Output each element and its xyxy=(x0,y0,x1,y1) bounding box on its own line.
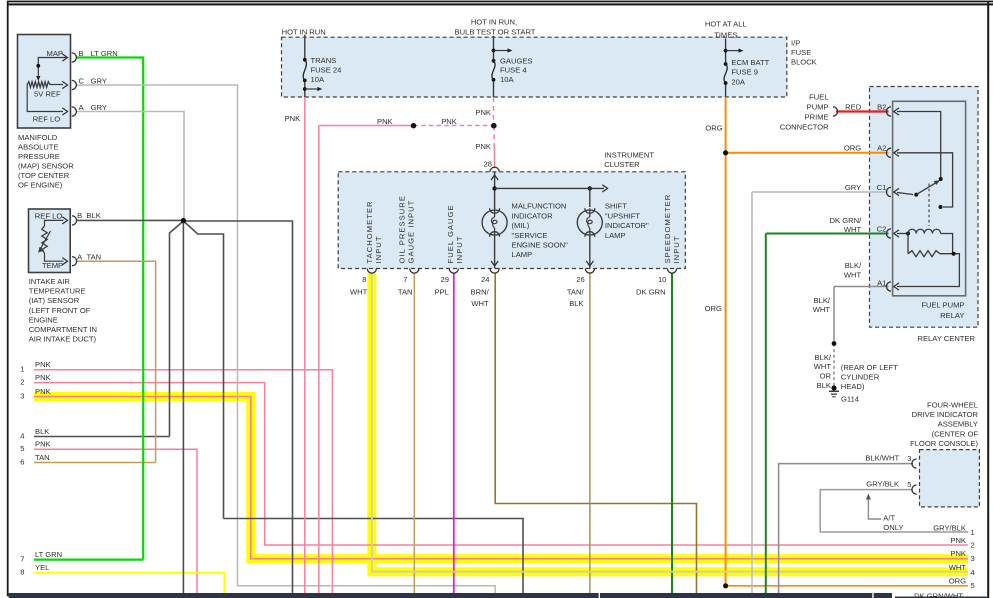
svg-text:GRY: GRY xyxy=(91,76,107,85)
svg-text:29: 29 xyxy=(441,275,449,284)
svg-text:BLK/: BLK/ xyxy=(814,296,831,305)
svg-text:20A: 20A xyxy=(731,78,745,87)
svg-text:BULB TEST OR START: BULB TEST OR START xyxy=(455,28,536,37)
svg-text:LAMP: LAMP xyxy=(512,250,533,259)
svg-text:INDICATOR": INDICATOR" xyxy=(605,221,649,230)
svg-text:REF LO: REF LO xyxy=(35,211,63,220)
svg-text:BLK: BLK xyxy=(87,211,101,220)
svg-text:PNK: PNK xyxy=(950,536,966,545)
svg-text:5: 5 xyxy=(907,480,911,489)
svg-text:COMPARTMENT IN: COMPARTMENT IN xyxy=(29,325,97,334)
svg-text:RELAY: RELAY xyxy=(940,311,964,320)
svg-text:28: 28 xyxy=(484,160,492,169)
svg-text:BLK/: BLK/ xyxy=(845,261,862,270)
svg-text:FLOOR CONSOLE): FLOOR CONSOLE) xyxy=(910,439,978,448)
svg-text:HOT AT ALL: HOT AT ALL xyxy=(705,20,747,29)
svg-text:(TOP CENTER: (TOP CENTER xyxy=(18,171,70,180)
svg-text:2: 2 xyxy=(20,377,24,386)
svg-text:LT GRN: LT GRN xyxy=(91,49,118,58)
svg-text:RELAY CENTER: RELAY CENTER xyxy=(917,334,975,343)
svg-text:BLK/WHT: BLK/WHT xyxy=(865,453,899,462)
svg-text:INDICATOR: INDICATOR xyxy=(512,211,554,220)
svg-text:RED: RED xyxy=(845,103,862,112)
svg-text:3: 3 xyxy=(971,554,975,563)
svg-text:3: 3 xyxy=(907,454,911,463)
svg-text:PNK: PNK xyxy=(377,117,393,126)
svg-text:G114: G114 xyxy=(841,394,859,403)
svg-text:PNK: PNK xyxy=(475,108,491,117)
svg-text:1: 1 xyxy=(971,528,975,537)
svg-text:4: 4 xyxy=(971,568,975,577)
svg-text:ENGINE: ENGINE xyxy=(29,315,58,324)
svg-text:BLOCK: BLOCK xyxy=(791,58,817,67)
svg-text:FUEL PUMP: FUEL PUMP xyxy=(921,301,964,310)
svg-text:SHIFT: SHIFT xyxy=(605,202,627,211)
svg-text:BLK/: BLK/ xyxy=(815,353,832,362)
svg-text:YEL: YEL xyxy=(35,563,49,572)
svg-text:TACHOMETER: TACHOMETER xyxy=(365,200,374,263)
svg-text:AIR INTAKE DUCT): AIR INTAKE DUCT) xyxy=(29,335,97,344)
svg-text:PRESSURE: PRESSURE xyxy=(18,152,60,161)
svg-text:WHT: WHT xyxy=(844,270,862,279)
svg-text:8: 8 xyxy=(362,275,366,284)
svg-text:8: 8 xyxy=(20,568,24,577)
svg-text:PRIME: PRIME xyxy=(805,112,829,121)
svg-text:10: 10 xyxy=(658,275,666,284)
svg-text:TAN: TAN xyxy=(35,453,50,462)
svg-text:HOT IN RUN: HOT IN RUN xyxy=(282,28,326,37)
svg-text:WHT: WHT xyxy=(350,288,368,297)
svg-text:FUSE: FUSE xyxy=(791,48,811,57)
svg-text:TAN: TAN xyxy=(87,252,102,261)
svg-text:C: C xyxy=(79,76,85,85)
svg-text:DRIVE INDICATOR: DRIVE INDICATOR xyxy=(912,410,979,419)
svg-text:TRANS: TRANS xyxy=(311,56,337,65)
svg-text:WHT: WHT xyxy=(813,305,831,314)
svg-text:PNK: PNK xyxy=(35,387,51,396)
svg-text:(MAP) SENSOR: (MAP) SENSOR xyxy=(18,162,74,171)
svg-text:TAN/: TAN/ xyxy=(567,288,585,297)
svg-text:HOT IN RUN,: HOT IN RUN, xyxy=(471,17,517,26)
svg-text:ORG: ORG xyxy=(949,577,966,586)
svg-text:BLK: BLK xyxy=(35,427,49,436)
svg-text:INPUT: INPUT xyxy=(672,235,681,263)
svg-text:ORG: ORG xyxy=(705,123,722,132)
svg-text:C2: C2 xyxy=(877,225,887,234)
svg-text:REF LO: REF LO xyxy=(33,115,61,124)
svg-text:5V REF: 5V REF xyxy=(34,90,61,99)
svg-text:ONLY: ONLY xyxy=(883,523,903,532)
svg-text:DK GRN/WHT: DK GRN/WHT xyxy=(914,592,963,598)
svg-text:INPUT: INPUT xyxy=(455,235,464,263)
svg-text:TEMP: TEMP xyxy=(42,261,63,270)
svg-text:A/T: A/T xyxy=(883,513,895,522)
svg-text:5: 5 xyxy=(20,444,24,453)
svg-text:ECM BATT: ECM BATT xyxy=(731,58,769,67)
svg-text:OIL PRESSURE: OIL PRESSURE xyxy=(398,195,407,263)
svg-text:PNK: PNK xyxy=(441,117,457,126)
svg-text:"UPSHIFT: "UPSHIFT xyxy=(605,211,641,220)
svg-text:PNK: PNK xyxy=(950,549,966,558)
svg-text:BLK: BLK xyxy=(569,299,583,308)
svg-text:MANIFOLD: MANIFOLD xyxy=(18,133,58,142)
svg-text:ABSOLUTE: ABSOLUTE xyxy=(18,143,59,152)
svg-text:3: 3 xyxy=(20,391,24,400)
svg-text:PUMP: PUMP xyxy=(807,102,829,111)
svg-text:GRY/BLK: GRY/BLK xyxy=(933,523,966,532)
svg-text:LAMP: LAMP xyxy=(605,231,626,240)
svg-text:A1: A1 xyxy=(877,279,886,288)
svg-text:FOUR-WHEEL: FOUR-WHEEL xyxy=(927,400,978,409)
svg-text:MAP: MAP xyxy=(47,49,63,58)
svg-text:WHT: WHT xyxy=(844,225,862,234)
svg-text:FUEL GAUGE: FUEL GAUGE xyxy=(446,204,455,263)
svg-text:B: B xyxy=(79,49,84,58)
svg-text:5: 5 xyxy=(971,581,975,590)
svg-text:7: 7 xyxy=(403,275,407,284)
svg-text:GRY: GRY xyxy=(91,103,107,112)
svg-text:TEMPERATURE: TEMPERATURE xyxy=(29,286,86,295)
svg-text:CLUSTER: CLUSTER xyxy=(604,160,640,169)
svg-text:(REAR OF LEFT: (REAR OF LEFT xyxy=(841,363,898,372)
svg-text:INPUT: INPUT xyxy=(374,235,383,263)
svg-text:CYLINDER: CYLINDER xyxy=(841,373,880,382)
svg-text:(CENTER OF: (CENTER OF xyxy=(932,429,979,438)
svg-text:C1: C1 xyxy=(877,183,887,192)
svg-text:(IAT) SENSOR: (IAT) SENSOR xyxy=(29,296,80,305)
svg-text:GAUGES: GAUGES xyxy=(500,56,533,65)
svg-text:I/P: I/P xyxy=(791,39,800,48)
svg-text:7: 7 xyxy=(20,554,24,563)
svg-text:(MIL): (MIL) xyxy=(512,221,530,230)
svg-text:FUSE 24: FUSE 24 xyxy=(311,66,342,75)
svg-text:A2: A2 xyxy=(877,144,886,153)
svg-text:ASSEMBLY: ASSEMBLY xyxy=(938,420,978,429)
svg-text:10A: 10A xyxy=(500,75,514,84)
svg-text:PPL: PPL xyxy=(434,288,448,297)
svg-text:ORG: ORG xyxy=(705,304,722,313)
svg-text:FUEL: FUEL xyxy=(809,92,828,101)
svg-text:INTAKE AIR: INTAKE AIR xyxy=(29,277,71,286)
svg-text:B2: B2 xyxy=(877,103,886,112)
svg-text:GAUGE INPUT: GAUGE INPUT xyxy=(407,200,416,264)
svg-text:PNK: PNK xyxy=(35,440,51,449)
svg-text:GRY: GRY xyxy=(845,183,861,192)
svg-text:WHT: WHT xyxy=(949,563,967,572)
svg-text:B: B xyxy=(77,211,82,220)
svg-text:2: 2 xyxy=(971,541,975,550)
svg-text:DK GRN: DK GRN xyxy=(636,288,666,297)
svg-text:TAN: TAN xyxy=(398,288,413,297)
svg-text:(LEFT FRONT OF: (LEFT FRONT OF xyxy=(29,306,91,315)
svg-text:4: 4 xyxy=(20,431,24,440)
svg-text:LT GRN: LT GRN xyxy=(35,550,62,559)
svg-text:WHT: WHT xyxy=(814,362,832,371)
svg-text:BLK: BLK xyxy=(817,381,831,390)
svg-text:26: 26 xyxy=(576,275,584,284)
svg-text:OF ENGINE): OF ENGINE) xyxy=(18,181,63,190)
svg-text:SPEEDOMETER: SPEEDOMETER xyxy=(663,194,672,264)
svg-text:PNK: PNK xyxy=(35,373,51,382)
svg-text:BRN/: BRN/ xyxy=(471,288,490,297)
svg-text:GRY/BLK: GRY/BLK xyxy=(866,479,899,488)
svg-text:PNK: PNK xyxy=(285,114,301,123)
svg-text:OR: OR xyxy=(820,372,832,381)
svg-text:PNK: PNK xyxy=(475,142,491,151)
svg-text:10A: 10A xyxy=(311,75,325,84)
svg-text:DK GRN/: DK GRN/ xyxy=(830,216,863,225)
svg-text:6: 6 xyxy=(20,457,24,466)
svg-text:ENGINE SOON": ENGINE SOON" xyxy=(512,241,569,250)
svg-text:WHT: WHT xyxy=(471,299,489,308)
svg-text:24: 24 xyxy=(481,275,489,284)
svg-text:TIMES: TIMES xyxy=(714,30,737,39)
svg-text:PNK: PNK xyxy=(35,360,51,369)
svg-text:FUSE 9: FUSE 9 xyxy=(731,68,758,77)
svg-text:CONNECTOR: CONNECTOR xyxy=(780,122,829,131)
svg-text:INSTRUMENT: INSTRUMENT xyxy=(604,150,654,159)
svg-text:1: 1 xyxy=(20,365,24,374)
svg-text:MALFUNCTION: MALFUNCTION xyxy=(512,202,567,211)
svg-text:"SERVICE: "SERVICE xyxy=(512,231,548,240)
svg-text:ORG: ORG xyxy=(844,144,861,153)
svg-text:HEAD): HEAD) xyxy=(841,382,865,391)
svg-text:FUSE 4: FUSE 4 xyxy=(500,65,527,74)
